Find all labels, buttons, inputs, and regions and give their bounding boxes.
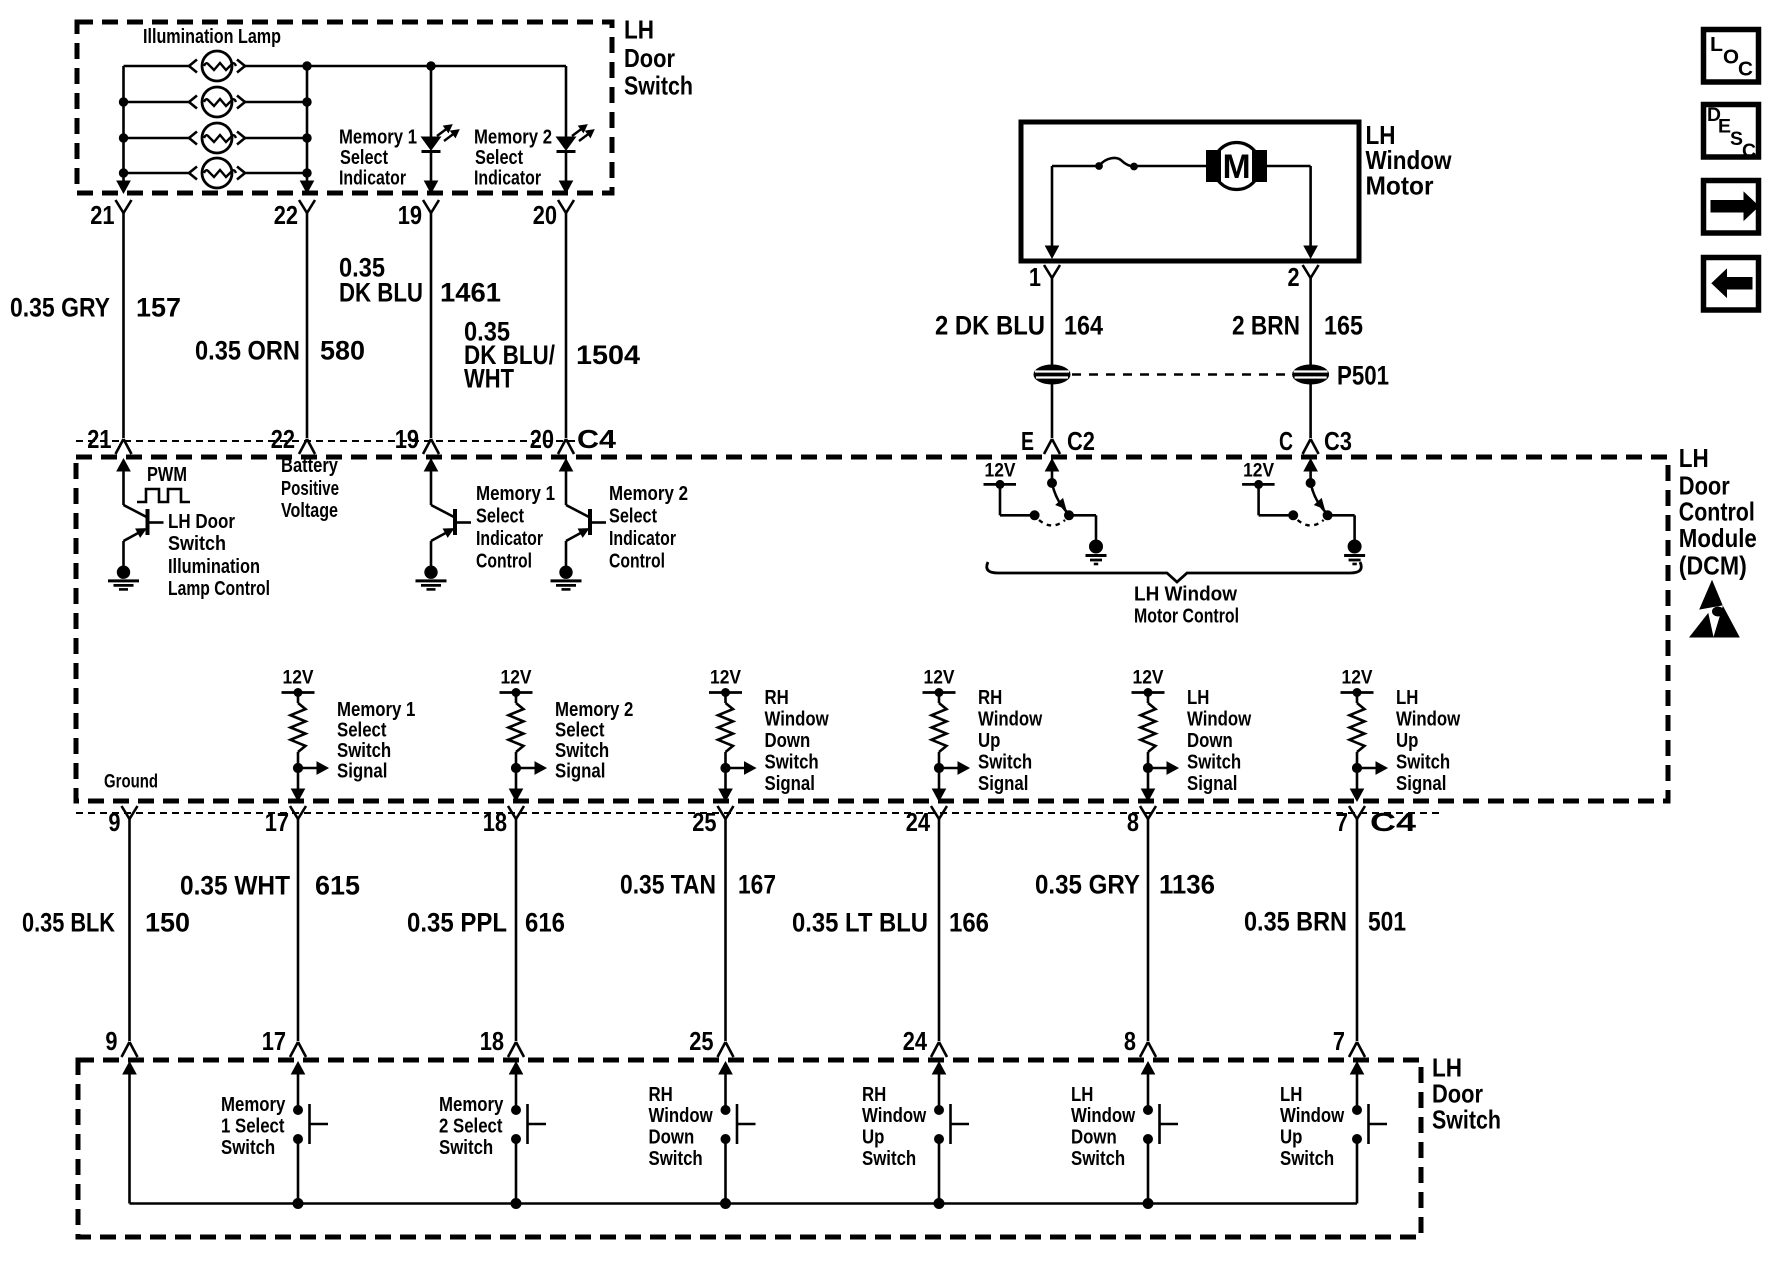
svg-text:25: 25 [689,1026,713,1056]
svg-text:Window: Window [1187,709,1252,731]
svg-text:Up: Up [1396,730,1418,752]
svg-text:164: 164 [1064,310,1103,340]
svg-text:580: 580 [320,335,365,365]
svg-text:RH: RH [765,687,789,709]
svg-text:Select: Select [609,506,657,528]
svg-text:Switch: Switch [649,1148,703,1170]
svg-text:12V: 12V [710,668,741,689]
svg-text:Indicator: Indicator [476,528,543,550]
svg-text:616: 616 [525,908,565,938]
svg-text:Indicator: Indicator [609,528,676,550]
svg-text:Select: Select [476,506,524,528]
svg-text:Signal: Signal [978,773,1028,795]
svg-text:Signal: Signal [555,761,605,783]
svg-text:Down: Down [1187,730,1233,752]
svg-text:Up: Up [862,1127,884,1149]
svg-text:(DCM): (DCM) [1679,551,1747,581]
svg-text:12V: 12V [1243,461,1274,482]
svg-text:Switch: Switch [221,1137,275,1159]
svg-text:Window: Window [978,709,1043,731]
svg-text:Motor Control: Motor Control [1134,606,1239,628]
svg-text:2 Select: 2 Select [439,1116,503,1138]
svg-text:Indicator: Indicator [339,168,406,190]
svg-text:Lamp Control: Lamp Control [168,578,270,600]
svg-text:24: 24 [903,1026,928,1056]
svg-text:Switch: Switch [1280,1148,1334,1170]
svg-text:Window: Window [1280,1105,1345,1127]
svg-text:Signal: Signal [1187,773,1237,795]
svg-text:24: 24 [906,807,931,837]
svg-text:Signal: Signal [337,761,387,783]
svg-text:Battery: Battery [281,455,339,477]
svg-text:LH: LH [1187,687,1209,709]
svg-text:Indicator: Indicator [474,168,541,190]
svg-text:Select: Select [340,147,388,169]
svg-text:Memory 2: Memory 2 [474,127,552,149]
svg-text:0.35 ORN: 0.35 ORN [195,335,300,365]
svg-text:Switch: Switch [168,533,226,555]
svg-text:12V: 12V [924,668,955,689]
svg-text:PWM: PWM [147,464,187,486]
svg-text:LH Door: LH Door [168,511,235,533]
svg-text:0.35 WHT: 0.35 WHT [180,871,290,901]
svg-text:18: 18 [480,1026,504,1056]
svg-text:22: 22 [271,424,295,454]
svg-text:Down: Down [1071,1127,1117,1149]
svg-text:20: 20 [533,200,557,230]
svg-text:Up: Up [978,730,1000,752]
svg-text:12V: 12V [985,461,1016,482]
svg-text:22: 22 [274,200,298,230]
svg-text:Switch: Switch [1187,752,1241,774]
svg-text:C3: C3 [1324,426,1352,456]
svg-text:LH: LH [1396,687,1418,709]
svg-text:Memory 1: Memory 1 [337,699,415,721]
svg-text:Control: Control [476,551,532,573]
svg-text:Switch: Switch [624,71,693,101]
svg-text:17: 17 [262,1026,286,1056]
svg-text:25: 25 [692,807,716,837]
svg-text:Select: Select [555,720,605,742]
svg-text:Switch: Switch [1396,752,1450,774]
svg-text:150: 150 [145,908,190,938]
svg-text:C2: C2 [1067,426,1095,456]
svg-text:2 DK BLU: 2 DK BLU [935,310,1045,340]
svg-text:Down: Down [649,1127,695,1149]
svg-text:RH: RH [978,687,1002,709]
svg-text:21: 21 [90,200,114,230]
svg-text:1504: 1504 [576,340,640,370]
svg-text:LH: LH [1679,443,1709,473]
svg-text:Switch: Switch [1071,1148,1125,1170]
svg-text:1 Select: 1 Select [221,1116,285,1138]
svg-text:167: 167 [738,870,776,900]
svg-text:LH: LH [1280,1084,1302,1106]
svg-text:Memory: Memory [221,1094,286,1116]
svg-text:LH: LH [1071,1084,1093,1106]
svg-text:P501: P501 [1337,360,1389,390]
svg-text:Voltage: Voltage [281,500,338,522]
svg-text:0.35 GRY: 0.35 GRY [1035,870,1140,900]
svg-text:1136: 1136 [1159,870,1215,900]
svg-text:Switch: Switch [337,740,391,762]
svg-text:C: C [1742,141,1756,162]
svg-text:C4: C4 [577,424,617,454]
svg-text:0.35 PPL: 0.35 PPL [407,908,507,938]
svg-text:19: 19 [395,424,419,454]
svg-text:Memory: Memory [439,1094,504,1116]
svg-text:Window: Window [862,1105,927,1127]
svg-text:Illumination: Illumination [168,556,260,578]
svg-text:8: 8 [1124,1026,1136,1056]
svg-text:L: L [1710,34,1723,56]
svg-text:615: 615 [315,871,360,901]
svg-text:LH: LH [624,15,654,45]
svg-text:O: O [1723,47,1739,69]
svg-text:RH: RH [862,1084,886,1106]
svg-text:Switch: Switch [978,752,1032,774]
svg-text:165: 165 [1324,310,1363,340]
svg-text:Window: Window [1071,1105,1136,1127]
svg-text:12V: 12V [283,668,314,689]
svg-text:7: 7 [1336,807,1348,837]
svg-text:Switch: Switch [765,752,819,774]
svg-text:20: 20 [530,424,554,454]
svg-text:Illumination Lamp: Illumination Lamp [143,26,281,48]
svg-text:Module: Module [1679,523,1757,553]
svg-text:0.35 GRY: 0.35 GRY [10,292,110,322]
svg-text:Memory 2: Memory 2 [555,699,633,721]
svg-text:Memory 1: Memory 1 [339,127,417,149]
svg-text:Signal: Signal [765,773,815,795]
svg-text:166: 166 [949,908,989,938]
svg-text:Window: Window [649,1105,714,1127]
svg-text:12V: 12V [1342,668,1373,689]
svg-text:12V: 12V [501,668,532,689]
svg-text:9: 9 [105,1026,117,1056]
svg-text:LH Window: LH Window [1134,584,1237,606]
svg-text:Memory 1: Memory 1 [476,483,555,505]
svg-text:8: 8 [1127,807,1139,837]
svg-text:18: 18 [483,807,507,837]
svg-text:0.35 TAN: 0.35 TAN [620,870,716,900]
svg-text:RH: RH [649,1084,673,1106]
svg-text:Window: Window [765,709,830,731]
svg-text:2 BRN: 2 BRN [1232,310,1300,340]
svg-text:M: M [1223,148,1251,186]
svg-text:Switch: Switch [1432,1104,1501,1134]
svg-text:17: 17 [265,807,289,837]
svg-text:21: 21 [87,424,111,454]
svg-text:Door: Door [624,43,675,73]
svg-text:157: 157 [136,292,181,322]
svg-text:Window: Window [1396,709,1461,731]
svg-text:19: 19 [398,200,422,230]
svg-text:12V: 12V [1133,668,1164,689]
svg-text:Switch: Switch [555,740,609,762]
svg-text:Up: Up [1280,1127,1302,1149]
svg-text:Signal: Signal [1396,773,1446,795]
svg-text:Memory 2: Memory 2 [609,483,688,505]
svg-text:Switch: Switch [439,1137,493,1159]
svg-text:0.35 LT BLU: 0.35 LT BLU [792,908,928,938]
svg-text:Positive: Positive [281,478,339,500]
svg-text:0.35 BLK: 0.35 BLK [22,908,115,938]
svg-text:Motor: Motor [1366,171,1434,201]
svg-text:Select: Select [475,147,523,169]
svg-text:Switch: Switch [862,1148,916,1170]
svg-text:7: 7 [1333,1026,1345,1056]
svg-text:Ground: Ground [104,772,158,793]
svg-text:C: C [1738,59,1753,81]
svg-text:1461: 1461 [440,277,501,307]
svg-text:501: 501 [1368,907,1406,937]
svg-text:2: 2 [1288,262,1300,292]
svg-text:WHT: WHT [464,363,514,393]
svg-text:C4: C4 [1370,807,1417,837]
svg-text:0.35 BRN: 0.35 BRN [1244,907,1347,937]
svg-text:C: C [1279,426,1293,456]
svg-text:DK BLU: DK BLU [339,277,423,307]
svg-text:1: 1 [1029,262,1041,292]
svg-text:Down: Down [765,730,811,752]
svg-text:Control: Control [609,551,665,573]
svg-text:E: E [1021,426,1034,456]
svg-text:Select: Select [337,720,387,742]
svg-text:9: 9 [108,807,120,837]
